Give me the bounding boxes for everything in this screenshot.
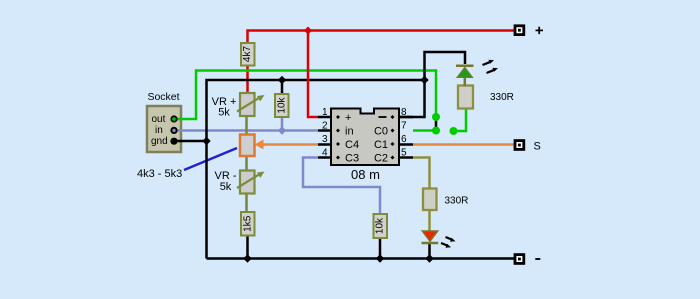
junction 10k top bbox=[278, 76, 286, 84]
wire olive wiper box to VR- bbox=[245, 156, 248, 171]
node green junction lower bbox=[432, 127, 440, 135]
junction rail 1k5 bbox=[243, 254, 251, 262]
svg-text:in: in bbox=[155, 125, 163, 136]
svg-text:6: 6 bbox=[401, 134, 407, 145]
node socket in pin bbox=[170, 127, 177, 134]
text minus terminal bbox=[535, 258, 540, 260]
wire black pin 3 stub bbox=[318, 143, 331, 146]
node green endpoint bbox=[450, 127, 458, 135]
wire black link between green dots bbox=[435, 117, 438, 131]
wire black pin 2 stub bbox=[318, 129, 331, 132]
pin label C2 bbox=[374, 153, 395, 165]
wire black 1k5 to rail bbox=[246, 236, 249, 259]
svg-text:10k: 10k bbox=[375, 217, 386, 234]
svg-text:Socket: Socket bbox=[147, 91, 179, 103]
pin label minus bbox=[379, 115, 395, 119]
svg-text:C4: C4 bbox=[345, 139, 359, 151]
wire pin 1 stub bbox=[318, 116, 331, 119]
wire lavender 10k bottom stub bbox=[281, 117, 284, 131]
terminal + bbox=[514, 24, 526, 36]
pin label C1 bbox=[374, 139, 395, 151]
wire black 10k to rail bbox=[379, 238, 382, 259]
junction rail 10k bbox=[376, 254, 384, 262]
junction lavender bbox=[278, 126, 286, 134]
potentiometer VR+ 5k bbox=[237, 93, 265, 116]
wire black pin 8 loop bbox=[399, 52, 465, 117]
potentiometer wiper box bbox=[240, 135, 255, 157]
wire red 4k7 to VR+ bbox=[246, 66, 249, 94]
LED D1 rays bbox=[483, 60, 499, 73]
terminal minus bbox=[514, 253, 526, 265]
wire green LED resistor tail bbox=[454, 109, 467, 132]
junction rail LED bbox=[425, 254, 433, 262]
annotation 4k3-5k3 pointer bbox=[184, 148, 237, 170]
wire olive VR- to 1k5 bbox=[245, 195, 248, 213]
wire black red LED to rail bbox=[428, 243, 431, 259]
wire black pin 5 stub bbox=[399, 156, 413, 159]
svg-text:C1: C1 bbox=[374, 139, 388, 151]
wire olive VR+ to pot wiper box bbox=[245, 116, 248, 135]
svg-text:1k5: 1k5 bbox=[242, 215, 253, 232]
arrow orange wiper bbox=[255, 140, 264, 150]
svg-text:3: 3 bbox=[322, 134, 328, 145]
svg-text:gnd: gnd bbox=[151, 136, 168, 147]
svg-text:7: 7 bbox=[401, 121, 407, 132]
svg-text:4k7: 4k7 bbox=[242, 46, 253, 63]
svg-text:S: S bbox=[534, 141, 541, 153]
resistor R1 4k7 bbox=[241, 43, 255, 66]
pin label C3 bbox=[336, 153, 359, 165]
junction red rail bbox=[304, 27, 312, 35]
node green junction upper bbox=[432, 113, 440, 121]
svg-text:C3: C3 bbox=[345, 153, 359, 165]
svg-text:2: 2 bbox=[322, 121, 328, 132]
resistor R2 10k upper bbox=[275, 94, 289, 117]
LED D2 red bbox=[422, 231, 439, 243]
wire green from socket out to LED column bbox=[174, 71, 436, 120]
wire pin 8 stub bbox=[399, 116, 413, 119]
junction gnd bbox=[202, 137, 210, 145]
IC U1 PICAXE-08M body bbox=[331, 109, 399, 166]
wire black 10k top stub bbox=[281, 80, 284, 94]
wire orange wiper to pin 3 bbox=[261, 143, 318, 146]
svg-text:C2: C2 bbox=[374, 153, 388, 165]
svg-text:out: out bbox=[152, 114, 166, 125]
svg-text:10k: 10k bbox=[276, 96, 287, 113]
pin label + bbox=[336, 112, 351, 124]
svg-text:5: 5 bbox=[401, 148, 407, 159]
svg-text:4k3 - 5k3: 4k3 - 5k3 bbox=[137, 168, 182, 180]
wire black ground vertical bbox=[207, 80, 425, 259]
wire red +V rail bbox=[248, 31, 515, 44]
svg-text:in: in bbox=[345, 126, 354, 138]
svg-text:330R: 330R bbox=[490, 92, 514, 103]
svg-text:+: + bbox=[345, 112, 351, 124]
LED D2 rays bbox=[441, 237, 456, 248]
svg-text:5k: 5k bbox=[218, 107, 230, 119]
potentiometer VR- 5k bbox=[237, 171, 265, 194]
pin label C0 bbox=[374, 126, 395, 138]
wire lavender in line bbox=[174, 129, 319, 132]
wire green pin 7 bbox=[413, 129, 436, 132]
resistor R5 330R green LED bbox=[458, 86, 473, 109]
wire black bottom rail bbox=[207, 257, 515, 260]
wire black socket gnd bbox=[174, 140, 207, 143]
wire olive 330R to red LED bbox=[428, 210, 431, 231]
pin label C4 bbox=[336, 139, 359, 151]
terminal S bbox=[514, 139, 526, 151]
svg-text:4: 4 bbox=[322, 148, 328, 159]
resistor R4 10k lower bbox=[374, 214, 388, 238]
svg-text:C0: C0 bbox=[374, 126, 388, 138]
socket connector bbox=[147, 106, 181, 152]
wire red drop to pin 1 bbox=[308, 31, 318, 118]
wire black pin 6 stub bbox=[399, 143, 413, 146]
node socket gnd pin bbox=[170, 138, 177, 145]
resistor R6 330R red LED bbox=[423, 189, 437, 211]
text + terminal bbox=[536, 27, 544, 34]
LED D1 green bbox=[456, 66, 474, 86]
node socket out pin bbox=[170, 115, 177, 122]
svg-text:5k: 5k bbox=[220, 181, 232, 193]
pin label in bbox=[336, 126, 354, 138]
junction black top bbox=[420, 76, 428, 84]
wire black pin 4 stub bbox=[318, 156, 331, 159]
svg-text:08 m: 08 m bbox=[351, 167, 380, 182]
wire olive pin 5 to 330R bbox=[413, 158, 430, 189]
wire orange pin 6 to S bbox=[413, 143, 514, 146]
svg-text:1: 1 bbox=[322, 107, 328, 118]
svg-text:330R: 330R bbox=[445, 196, 469, 207]
svg-text:8: 8 bbox=[401, 107, 407, 118]
resistor R3 1k5 bbox=[241, 212, 255, 236]
wire lavender pin 4 to 10k bbox=[303, 158, 380, 215]
